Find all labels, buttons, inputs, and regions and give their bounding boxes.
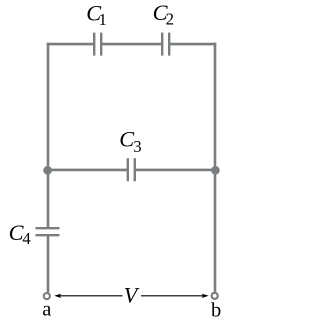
svg-text:V: V — [124, 283, 140, 308]
svg-text:b: b — [211, 300, 221, 322]
svg-text:1: 1 — [99, 10, 107, 29]
svg-text:3: 3 — [133, 137, 141, 156]
svg-text:a: a — [42, 298, 51, 320]
svg-text:2: 2 — [166, 10, 174, 29]
svg-text:4: 4 — [22, 229, 31, 248]
